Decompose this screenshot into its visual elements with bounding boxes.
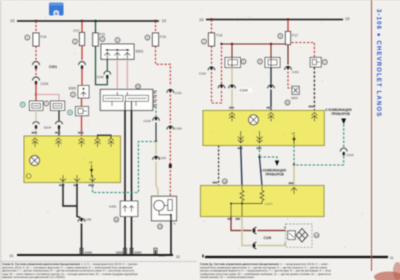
node: [155, 140, 157, 142]
svg-text:UP: UP: [292, 132, 296, 136]
pin labels: [229, 107, 272, 149]
connector C106 upper (right pg): [253, 229, 256, 232]
svg-text:15: 15: [345, 16, 350, 21]
wire F14a down (red dashed): [35, 46, 37, 60]
connector C104 (left leg): [33, 77, 40, 80]
circled 11: [285, 100, 290, 105]
svg-text:G202: G202: [109, 205, 117, 209]
circled 6 (teal): [20, 102, 25, 107]
svg-text:B: B: [284, 226, 286, 230]
svg-text:10: 10: [136, 85, 140, 89]
wire S001 to relay box (pink 2): [126, 59, 128, 92]
corner smudge: [374, 272, 400, 280]
svg-text:ПРИБОРОВ: ПРИБОРОВ: [266, 173, 285, 177]
junction bus/F14a: [35, 20, 38, 23]
wire red into injector 1: [35, 95, 37, 102]
relay box (main/fuel pump relays): [100, 89, 153, 110]
wire cream down to C106: [155, 142, 157, 155]
dashed feed to cam sensor box: [292, 43, 315, 58]
jumper bracket: [98, 135, 112, 138]
connector C206: [104, 71, 111, 74]
circled 12: [222, 179, 227, 184]
svg-text:C106: C106: [84, 218, 92, 222]
svg-text:A: A: [284, 242, 286, 246]
cream down into lower block: [293, 165, 295, 186]
dashed red to S003: [288, 72, 292, 89]
svg-text:C001: C001: [49, 65, 57, 69]
svg-text:31: 31: [10, 254, 14, 258]
arrow: [341, 119, 346, 125]
circled 1: [202, 39, 207, 44]
connector C106: [153, 156, 160, 159]
wire dashed red down: [211, 46, 213, 65]
circled 13: [158, 224, 163, 229]
pin top right: [291, 188, 297, 191]
svg-text:XCИГН: XCИГН: [265, 203, 273, 206]
circled digit labels: [22, 34, 326, 237]
circled 4: [115, 38, 120, 43]
resistors: [240, 190, 244, 201]
ground bar (right page): [205, 256, 388, 258]
wire C219 down (dark): [155, 123, 157, 142]
wire F11 down and right (green): [96, 46, 108, 85]
circled 9: [258, 59, 263, 64]
svg-text:C106: C106: [159, 156, 167, 160]
ECU block (left, yellow): [24, 135, 121, 182]
wire red down to S003: [81, 69, 83, 86]
wire up to S001: [106, 59, 108, 71]
ground splice markers: [80, 248, 157, 254]
svg-text:15: 15: [162, 18, 167, 23]
splice box G202: [120, 201, 138, 217]
svg-text:C101: C101: [199, 72, 207, 76]
teal path relay to C219: [153, 106, 156, 108]
wire maroon to valve: [231, 217, 252, 231]
label C104 (right pg): [239, 88, 253, 93]
connector C101 (left leg, right pg): [208, 67, 215, 70]
hanging pins bottom: [238, 131, 263, 143]
circled 5: [71, 92, 76, 97]
wire pink branch to injector 2: [36, 95, 59, 102]
injector box 2: [50, 101, 64, 110]
small box below S003: [76, 107, 89, 116]
fuse F14a: [33, 33, 39, 46]
svg-text:31: 31: [176, 255, 180, 259]
svg-text:11: 11: [286, 101, 289, 105]
scan speckle: [11, 3, 363, 249]
wire F17 down (maroon): [287, 45, 289, 65]
page edge rule (brown): [371, 0, 373, 271]
teal dashed from arrow down: [343, 124, 345, 148]
fuse F14 (right pg): [209, 33, 215, 46]
connector C219: [153, 117, 160, 120]
svg-text:13: 13: [158, 225, 162, 229]
svg-text:S003: S003: [69, 87, 77, 91]
fuse F11: [93, 33, 99, 46]
svg-text:F14: F14: [41, 35, 47, 39]
sensor S003: [78, 86, 89, 99]
wires ECU upper to lower: [218, 146, 220, 186]
svg-text:G201: G201: [116, 251, 123, 255]
wire (red dashed): [35, 69, 37, 76]
svg-text:G10A: G10A: [85, 251, 93, 255]
wire red to ECU: [81, 116, 83, 136]
ECU block (right, yellow upper): [203, 111, 324, 146]
svg-text:F14: F14: [160, 35, 166, 39]
svg-text:C206: C206: [97, 75, 105, 79]
bus 15 (right page top supply rail): [206, 19, 343, 21]
circled 13: [314, 233, 319, 238]
teal node wire to lower: [259, 146, 261, 158]
circled 9: [145, 35, 150, 40]
svg-text:F17: F17: [292, 34, 298, 38]
fuse F14b: [153, 33, 159, 46]
pin chevrons top: [32, 138, 114, 147]
connector C106 lower (right pg): [253, 244, 256, 247]
svg-text:UP: UP: [89, 161, 93, 165]
wire node down (navy): [260, 157, 263, 186]
connector C101 (left pg): [167, 89, 174, 92]
circled 3: [100, 37, 105, 42]
wire cream to valve: [242, 217, 252, 246]
sensor box 2 (right pg): [265, 58, 280, 68]
svg-text:31: 31: [390, 256, 394, 260]
svg-text:(вариант исполнения для двигат: (вариант исполнения для двигателей 1,5 л…: [2, 275, 66, 279]
wire injector2 to ECU (black): [58, 110, 60, 121]
wire sensor1 to ECU (cream): [231, 68, 233, 85]
circled 2: [73, 39, 78, 44]
dashed red U up to supply line: [212, 72, 222, 103]
circled 7: [44, 101, 49, 106]
wire relay to ground (black pair): [124, 110, 126, 255]
wire F14b dashed red path right/down: [156, 46, 171, 86]
ground bus 31 (left page): [17, 254, 173, 256]
fuse F17: [80, 33, 85, 46]
svg-text:13: 13: [315, 233, 319, 237]
left caption text: [2, 262, 138, 279]
pin chevrons bottom: [60, 175, 96, 182]
ECU pin down to node (teal dashed): [293, 146, 295, 166]
wire F17 down (red): [81, 46, 83, 61]
wire sensor2 to ECU (navy): [270, 68, 272, 85]
screw circle: [30, 156, 40, 166]
wire bus to F17 (red): [287, 20, 289, 32]
svg-text:ческий разъём; 13 — клапан рец: ческий разъём; 13 — клапан рециркуляции.: [200, 275, 255, 279]
wire bus to F14 (red dashed): [211, 20, 213, 34]
junction bus/F11: [94, 20, 97, 23]
wire S001 to relay box (pink 1): [116, 59, 118, 92]
cam sensor box: [310, 57, 321, 67]
connector arc under injector 2: [55, 121, 62, 124]
connector arc under injector 1: [33, 122, 39, 124]
IAC motor box: [152, 196, 177, 221]
circled 7: [322, 60, 327, 65]
connector C100: [167, 126, 174, 129]
injector box 1: [29, 101, 43, 110]
connector C001 (left leg): [33, 62, 40, 65]
circled 1: [25, 35, 30, 40]
svg-text:C106: C106: [264, 236, 272, 240]
junction bus/F17: [81, 20, 84, 23]
circled 11: [114, 217, 119, 222]
svg-text:15: 15: [199, 17, 204, 22]
sensor S003 (right pg): [292, 86, 299, 94]
svg-text:ПРИБОРОВ: ПРИБОРОВ: [332, 112, 351, 116]
svg-text:G201: G201: [135, 251, 142, 255]
navy wire: [241, 146, 242, 187]
svg-text:A: A: [174, 222, 176, 226]
pin labels below: [228, 218, 241, 220]
svg-text:C100: C100: [175, 127, 183, 131]
wire dashed red down with junction: [169, 131, 171, 196]
svg-text:F14: F14: [217, 34, 223, 38]
ignition switch S001: [101, 44, 134, 59]
wire dashed red down: [169, 95, 171, 124]
svg-text:G10A: G10A: [159, 253, 167, 257]
supply line from F17 (maroon): [222, 43, 289, 46]
idle block (right, yellow lower): [201, 186, 325, 217]
wire to ground bus: [81, 224, 83, 256]
teal dashed branch to ECU: [93, 142, 157, 193]
EGR valve (dashed box): [284, 224, 312, 247]
svg-text:F17: F17: [74, 29, 80, 33]
svg-text:F11: F11: [100, 33, 106, 37]
node split: [35, 93, 37, 95]
fuse F17 (right pg): [286, 32, 291, 45]
arrow to instrument cluster (mid): [275, 161, 279, 167]
wire motor to ground: [170, 215, 172, 255]
svg-text:S001: S001: [136, 50, 144, 54]
wire injector1 to ECU (pale): [35, 110, 37, 121]
wires ECU to ground join: [63, 184, 77, 207]
connector C001 (right leg): [79, 62, 86, 65]
svg-text:11: 11: [115, 218, 118, 222]
svg-text:C219: C219: [144, 119, 152, 123]
svg-text:C210: C210: [347, 153, 355, 157]
svg-text:3-106 ● CHEVROLET LANOS: 3-106 ● CHEVROLET LANOS: [375, 9, 381, 117]
relay box right pin stubs: [153, 93, 156, 102]
svg-text:E104: E104: [44, 125, 51, 129]
wire bus to F14a (red dashed): [35, 21, 37, 33]
wire bus to F14b (dashed red): [155, 21, 157, 33]
svg-text:12: 12: [223, 179, 227, 183]
circled 10: [136, 84, 141, 89]
wire bus to F17 (red): [81, 21, 83, 33]
svg-text:C104: C104: [240, 89, 248, 93]
circled 6: [278, 34, 283, 39]
wire solid red down to node: [35, 85, 37, 96]
svg-text:S003: S003: [291, 96, 298, 100]
circled 8 (teal): [68, 110, 73, 115]
connector C210: [340, 148, 347, 151]
circled letter: [26, 174, 31, 179]
svg-text:15: 15: [10, 18, 15, 23]
bus 15 (left page top supply rail): [17, 20, 159, 22]
wire red S003 to lower box: [81, 98, 83, 106]
wire cream to IAC motor: [156, 162, 158, 197]
right caption text: [200, 262, 332, 279]
wire black dashed to ECU: [313, 67, 315, 111]
junction bus/F14b: [154, 20, 157, 23]
sensor box 1 (right pg): [225, 58, 241, 68]
circled 8: [241, 59, 246, 64]
thin rule above left caption: [0, 261, 197, 263]
ECU pin labels bottom: [32, 132, 95, 186]
svg-text:C101: C101: [175, 91, 183, 95]
connector arc: [218, 85, 225, 88]
chapter icon (blue): [49, 3, 64, 16]
connector C106 (ground leg): [78, 218, 85, 221]
connector C101 (right leg): [285, 66, 292, 69]
wire bus to F11 (green): [95, 21, 97, 33]
svg-text:C104: C104: [41, 82, 49, 86]
svg-text:C101: C101: [292, 70, 300, 74]
